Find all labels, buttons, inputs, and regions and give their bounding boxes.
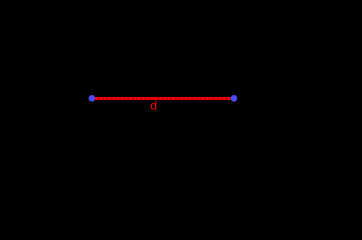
- node B: right blue point: [231, 95, 238, 102]
- node A: left blue point: [89, 95, 96, 102]
- svg-text:d: d: [150, 99, 157, 113]
- wire: bright dash pattern of the dashed segment: [91, 97, 234, 100]
- wire: red segment base between the two points: [92, 97, 234, 100]
